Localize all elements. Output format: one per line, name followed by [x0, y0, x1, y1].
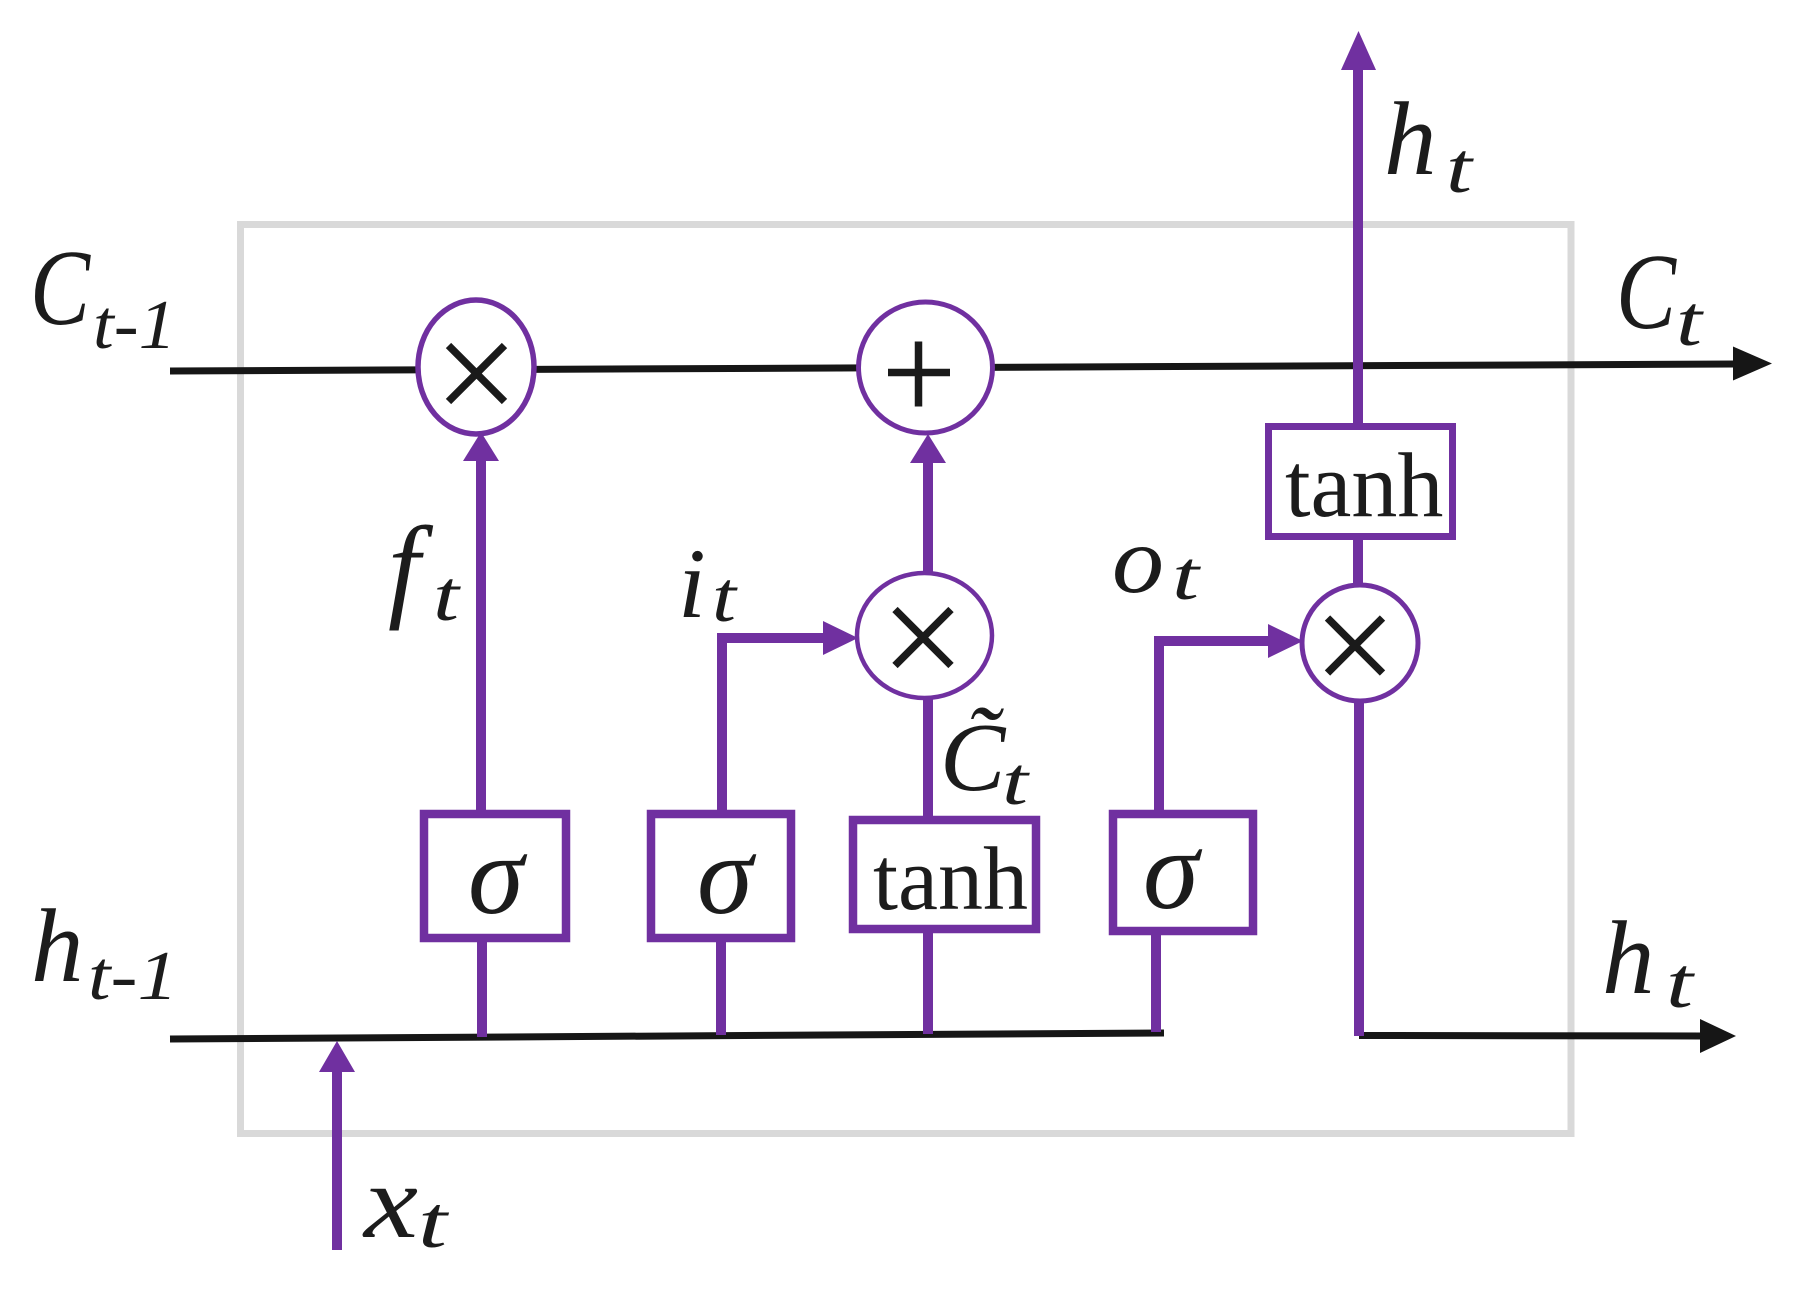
op add A1 (cell state sum)	[859, 302, 993, 433]
svg-text:i: i	[678, 528, 706, 639]
svg-text:x: x	[362, 1143, 418, 1260]
svg-text:σ: σ	[1143, 808, 1203, 933]
svg-text:f: f	[388, 504, 434, 631]
op multiply M4 (output gate product)	[1302, 585, 1418, 701]
wire sigma1 bottom stub	[477, 941, 487, 1037]
gate sigma box B4 (output gate)	[1113, 814, 1253, 931]
svg-text:C: C	[1616, 233, 1678, 352]
wire tanh B3 bottom stub	[923, 930, 933, 1034]
wire hidden-state line h (bottom-left, black)	[170, 1033, 1164, 1039]
svg-text:t: t	[1666, 943, 1696, 1023]
arrowhead f_t	[463, 432, 499, 461]
LSTM cell boundary box	[241, 225, 1572, 1134]
svg-text:t: t	[1676, 281, 1705, 361]
tanh box U1 (cell output activation)	[1269, 427, 1453, 537]
wire i_t (sigma2 up and right to multiply M3)	[722, 638, 825, 810]
svg-text:C̃: C̃	[940, 704, 1007, 812]
arrowhead C_t output	[1733, 347, 1772, 381]
arrowhead h_t output	[1700, 1019, 1736, 1053]
svg-text:σ: σ	[468, 813, 528, 938]
wire sigma4 bottom stub	[1151, 934, 1161, 1032]
op multiply M1 (forget gate product)	[418, 300, 534, 434]
svg-text:tanh: tanh	[1285, 434, 1443, 536]
wire cell-state line C (top, black)	[170, 364, 1736, 371]
svg-text:t: t	[1446, 128, 1475, 208]
gate sigma box B2 (input gate)	[651, 814, 791, 938]
arrowhead x_t	[319, 1041, 355, 1072]
svg-text:σ: σ	[697, 813, 757, 938]
svg-text:t: t	[433, 556, 462, 636]
wire h_t upward output	[1353, 69, 1363, 424]
wire f_t (sigma1 to multiply M1)	[476, 458, 486, 810]
wire hidden-state line h (bottom-right, black)	[1359, 1032, 1701, 1040]
svg-text:C: C	[30, 229, 92, 348]
op multiply M3 (input gate product)	[857, 573, 992, 698]
arrowhead o_t	[1268, 624, 1303, 658]
svg-text:o: o	[1112, 507, 1164, 613]
svg-text:h: h	[31, 887, 84, 1004]
wire tanh-top box to multiply M4	[1353, 540, 1363, 590]
wire multiply M4 down to hidden-state line	[1354, 699, 1364, 1036]
wire multiply M3 to add A1	[923, 462, 933, 574]
svg-text:t: t	[418, 1182, 450, 1264]
svg-text:t: t	[1002, 743, 1031, 819]
wire C~_t (tanh box B3 to multiply M3)	[923, 695, 933, 820]
svg-text:h: h	[1384, 80, 1437, 197]
gate sigma box B1 (forget gate)	[424, 814, 566, 938]
wire sigma2 bottom stub	[716, 941, 726, 1035]
arrowhead into add A1	[910, 434, 946, 463]
svg-text:h: h	[1602, 899, 1655, 1016]
arrowhead h_t top	[1341, 31, 1376, 70]
svg-text:tanh: tanh	[873, 830, 1028, 929]
arrowhead i_t	[823, 621, 858, 655]
svg-text:t-1: t-1	[88, 938, 178, 1015]
svg-text:t-1: t-1	[93, 287, 176, 364]
wire x_t input arrow	[332, 1070, 342, 1250]
gate tanh box B3 (candidate)	[853, 820, 1036, 929]
wire o_t (sigma4 up and right to multiply M4)	[1159, 641, 1269, 810]
svg-text:t: t	[1172, 538, 1201, 615]
svg-text:t: t	[712, 557, 738, 637]
